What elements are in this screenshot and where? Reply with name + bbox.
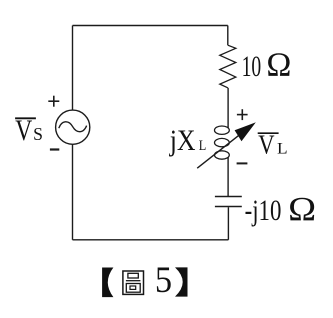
wire right upper	[227, 26, 229, 46]
caption character tu middle stroke	[126, 280, 140, 282]
source VS circle	[56, 110, 90, 144]
wire inductor to capacitor	[227, 157, 229, 196]
label jXL	[169, 124, 206, 157]
polarity plus of VL	[237, 109, 248, 120]
inductor jXL coil loop 2	[215, 138, 230, 146]
label VS overline	[15, 117, 36, 119]
label VL overline	[258, 132, 279, 134]
polarity minus of VL	[237, 162, 248, 164]
variable-inductor arrow head	[235, 122, 256, 141]
wire top	[73, 25, 228, 27]
caption character tu inner box	[130, 286, 136, 289]
label 10 ohm	[242, 47, 292, 84]
source VS sine	[59, 122, 87, 132]
label VL	[258, 130, 287, 160]
inductor jXL coil loop 1	[215, 126, 230, 134]
polarity plus of VS	[48, 96, 59, 107]
label -j10 ohm	[245, 191, 317, 228]
capacitor bottom plate	[215, 206, 242, 208]
svg-text:S: S	[33, 124, 43, 144]
caption character tu bottom box	[126, 284, 140, 293]
svg-text:V: V	[258, 130, 275, 160]
caption character tu top small box	[128, 273, 138, 278]
svg-text:V: V	[15, 115, 32, 147]
svg-text:5: 5	[155, 259, 172, 300]
svg-text:Ω: Ω	[288, 191, 316, 228]
capacitor top plate	[215, 196, 242, 198]
caption character tu outer box	[123, 271, 144, 294]
resistor 10ohm zigzag	[220, 45, 236, 88]
svg-text:Ω: Ω	[266, 47, 291, 84]
wire bottom	[73, 239, 229, 241]
svg-text:L: L	[277, 141, 288, 158]
wire capacitor to bottom	[227, 207, 229, 240]
variable-inductor arrow shaft	[197, 135, 239, 168]
label VS	[15, 115, 43, 147]
polarity minus of VS	[50, 148, 59, 150]
svg-text:10: 10	[242, 50, 262, 83]
caption right lenticular bracket	[175, 267, 188, 296]
svg-text:jX: jX	[169, 124, 196, 157]
wire left upper	[72, 26, 74, 111]
caption left lenticular bracket	[102, 268, 113, 298]
svg-text:-j10: -j10	[245, 195, 282, 227]
wire resistor to inductor	[227, 88, 229, 128]
inductor jXL coil loop 3	[215, 151, 230, 159]
wire left lower	[72, 144, 74, 240]
svg-text:L: L	[199, 138, 207, 154]
